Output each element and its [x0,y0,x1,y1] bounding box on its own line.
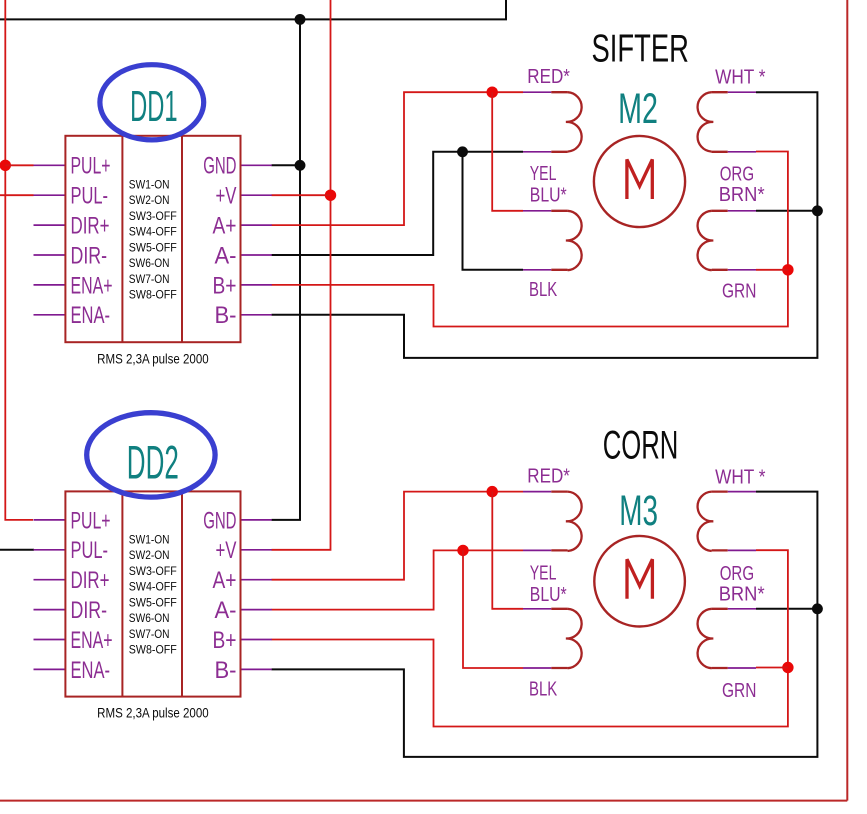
svg-text:SW8-OFF: SW8-OFF [129,643,177,657]
wire GRN M3 lead red [756,667,788,669]
wire coil lead stub [551,667,567,669]
svg-text:ORG: ORG [720,162,754,185]
node junction DD1 +V [325,190,336,201]
svg-text:SW1-ON: SW1-ON [129,177,170,191]
svg-text:BLK: BLK [529,678,557,701]
wire DD1 PUL- from edge [0,194,34,196]
svg-text:RMS 2,3A pulse 2000: RMS 2,3A pulse 2000 [97,350,209,366]
svg-text:DIR+: DIR+ [71,213,110,240]
pin DD2 ENA- stub [34,668,66,670]
node junction GRN M3 [782,662,793,673]
wire DD1 +V to bus [272,194,331,196]
svg-text:RED*: RED* [527,465,570,488]
inductor M2 coil BLU-BLK [566,211,582,270]
wire coil lead stub [551,91,567,93]
svg-text:SW5-OFF: SW5-OFF [129,240,177,254]
svg-text:SW2-ON: SW2-ON [129,548,170,562]
svg-text:PUL-: PUL- [71,537,109,564]
svg-text:RMS 2,3A pulse 2000: RMS 2,3A pulse 2000 [97,705,209,721]
wire coil lead stub [551,210,567,212]
wire DD1 B- to WHT [272,92,818,358]
node junction DD1 PUL+ [0,160,11,171]
pin DD2 B+ stub [241,639,272,641]
pin DD1 ENA+ stub [34,284,66,286]
svg-text:GRN: GRN [722,679,756,702]
inductor M3 coil RED-YEL [566,492,582,551]
svg-text:SW4-OFF: SW4-OFF [129,580,177,594]
svg-text:SW1-ON: SW1-ON [129,532,170,546]
svg-text:PUL-: PUL- [71,183,109,210]
svg-text:SW7-ON: SW7-ON [129,627,170,641]
pin M3 YEL lead [523,549,551,551]
wire DD2 PUL- from edge [0,549,34,551]
svg-text:BRN*: BRN* [719,583,765,606]
inductor M2 coil RED-YEL [566,92,582,151]
wire DD2 A- to YEL M3 [272,550,524,609]
wire coil lead stub [551,269,567,271]
svg-text:SW3-OFF: SW3-OFF [129,564,177,578]
svg-text:DIR-: DIR- [71,597,108,624]
svg-text:M2: M2 [618,85,658,133]
inductor M3 coil BRN-GRN [698,609,714,668]
pin DD1 B+ stub [241,284,272,286]
svg-text:SW2-ON: SW2-ON [129,193,170,207]
svg-text:DIR+: DIR+ [71,567,110,594]
wire DD1 B+ to ORG/GRN [272,152,788,327]
svg-text:SW7-ON: SW7-ON [129,272,170,286]
wire RED to BLU M3 [492,492,523,609]
svg-text:BRN*: BRN* [719,183,765,206]
node junction YEL M3 [457,545,468,556]
wire DD1 PUL+ [5,164,33,166]
pin DD2 ENA+ stub [34,639,66,641]
pin DD1 PUL+ stub [34,164,66,166]
pin M2 WHT lead [728,91,756,93]
svg-text:ENA-: ENA- [71,302,111,329]
svg-text:BLK: BLK [529,278,557,301]
wire GND vertical bus [272,19,301,520]
svg-text:SIFTER: SIFTER [592,27,689,70]
pin DD2 A+ stub [241,579,272,581]
pin M2 BRN lead [728,210,756,212]
inductor M2 coil WHT-ORG [698,92,714,151]
node junction YEL/BLK [457,146,468,157]
pin M2 YEL lead [523,151,551,153]
node junction RED* M3 [487,486,498,497]
svg-text:B-: B- [215,657,237,684]
svg-text:ENA-: ENA- [71,657,111,684]
pin DD1 GND stub [241,164,272,166]
svg-text:SW3-OFF: SW3-OFF [129,209,177,223]
node junction BRN [812,205,823,216]
motor M3 letter [627,559,652,599]
wire coil lead stub [551,549,567,551]
pin DD1 A+ stub [241,224,272,226]
node junction BRN M3 [812,603,823,614]
motor M3 circle [594,536,685,627]
pin DD1 A- stub [241,254,272,256]
svg-text:RED*: RED* [527,65,570,88]
wire coil lead stub [551,490,567,492]
pin M2 BLU lead [523,210,551,212]
svg-text:BLU*: BLU* [530,583,567,606]
pin M3 RED lead [523,491,551,493]
wire coil lead stub [551,608,567,610]
pin DD2 DIR+ stub [34,579,66,581]
svg-text:GND: GND [203,507,236,534]
pin M2 ORG lead [728,151,756,153]
driver block DD2 [65,491,240,696]
svg-text:SW6-ON: SW6-ON [129,256,170,270]
sheet border right wire [846,0,848,801]
svg-text:DIR-: DIR- [71,242,108,269]
svg-text:SW6-ON: SW6-ON [129,611,170,625]
pin DD2 DIR- stub [34,609,66,611]
wire DD2 A+ to RED lead [272,492,524,580]
pin M2 BLK lead [523,269,551,271]
svg-text:GND: GND [203,153,236,180]
wire DD1 A- to YEL [272,152,524,255]
svg-text:WHT *: WHT * [715,465,765,488]
wire coil lead stub [551,151,567,153]
svg-text:YEL: YEL [530,562,557,585]
svg-text:A+: A+ [213,567,237,594]
svg-text:ENA+: ENA+ [71,272,113,299]
wire +V vertical bus [272,0,331,550]
pin DD1 +V stub [241,194,272,196]
svg-text:YEL: YEL [530,162,557,185]
svg-text:GRN: GRN [722,279,756,302]
svg-text:BLU*: BLU* [530,184,567,207]
pin M3 WHT lead [728,491,756,493]
pin DD1 ENA- stub [34,314,66,316]
pin M2 RED lead [523,91,551,93]
wire DD1 GND to bus [272,164,301,166]
node junction DD1 GND [295,160,306,171]
wire YEL to BLK M3 [463,550,523,668]
pin DD1 DIR- stub [34,254,66,256]
svg-text:ORG: ORG [720,562,754,585]
inductor M3 coil WHT-ORG [698,492,714,551]
svg-text:DD1: DD1 [130,82,178,131]
motor M2 letter [627,159,652,199]
svg-text:SW8-OFF: SW8-OFF [129,288,177,302]
node junction top GND [295,14,306,25]
svg-text:A-: A- [215,597,237,624]
driver block DD1 [65,136,240,342]
svg-text:PUL+: PUL+ [71,507,111,534]
highlight ellipse DD2 [87,413,215,497]
svg-text:B+: B+ [213,272,237,299]
svg-text:B+: B+ [213,627,237,654]
inductor M2 coil BRN-GRN [698,211,714,270]
pin DD1 B- stub [241,314,272,316]
wire DD2 B+ to ORG/GRN M3 [272,550,788,726]
wire BRN M3 lead black [756,608,817,610]
svg-text:DD2: DD2 [127,435,179,488]
svg-text:WHT *: WHT * [715,66,765,89]
svg-text:CORN: CORN [603,424,679,468]
wire GRN M2 lead red [756,269,788,271]
wire DD1 A+ to RED lead [272,92,524,225]
svg-text:ENA+: ENA+ [71,627,113,654]
wire RED to BLU M2 [492,92,523,211]
pin DD1 PUL- stub [34,194,66,196]
svg-text:SW5-OFF: SW5-OFF [129,595,177,609]
pin M3 GRN lead [728,667,756,669]
pin DD2 GND stub [241,519,272,521]
pin M2 GRN lead [728,269,756,271]
wire BRN lead black [756,210,817,212]
svg-text:SW4-OFF: SW4-OFF [129,225,177,239]
highlight ellipse DD1 [100,65,204,140]
node junction GRN M2 [782,264,793,275]
inductor M3 coil BLU-BLK [566,609,582,668]
wire YEL junction to BLK [463,152,524,270]
wire black top horizontal [0,0,506,19]
motor M2 circle [594,136,685,227]
svg-text:PUL+: PUL+ [71,153,111,180]
pin M3 BLK lead [523,667,551,669]
pin DD2 B- stub [241,668,272,670]
wire left supply vertical [5,0,33,520]
svg-text:+V: +V [216,183,237,210]
pin M3 ORG lead [728,549,756,551]
pin DD2 +V stub [241,549,272,551]
node junction RED* M2 [487,87,498,98]
pin DD2 A- stub [241,609,272,611]
sheet border bottom wire [0,800,847,802]
pin DD2 PUL+ stub [34,519,66,521]
svg-text:B-: B- [215,302,237,329]
wire DD2 B- to WHT [272,492,818,757]
svg-text:+V: +V [216,537,237,564]
svg-text:A+: A+ [213,213,237,240]
svg-text:M3: M3 [619,487,658,535]
svg-text:A-: A- [215,242,237,269]
pin DD1 DIR+ stub [34,224,66,226]
pin M3 BLU lead [523,608,551,610]
pin DD2 PUL- stub [34,549,66,551]
pin M3 BRN lead [728,608,756,610]
